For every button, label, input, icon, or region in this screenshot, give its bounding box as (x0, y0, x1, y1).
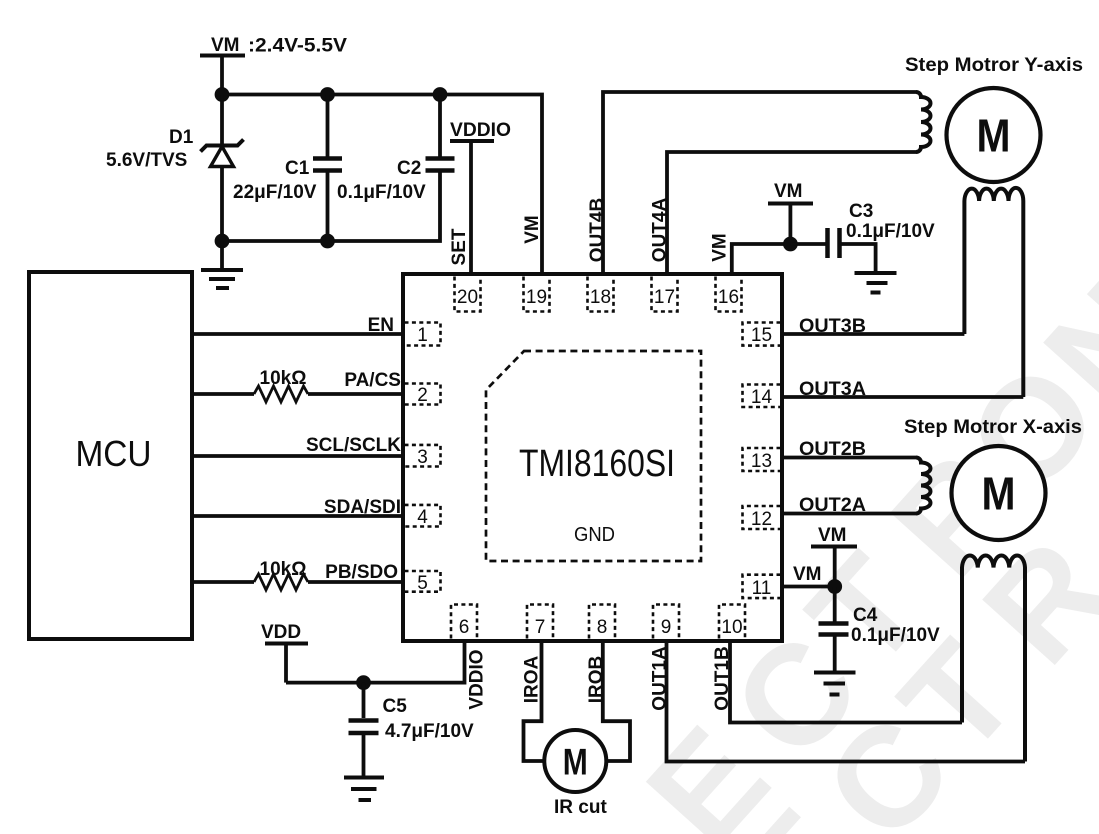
svg-text:19: 19 (526, 287, 547, 308)
svg-text:GND: GND (574, 524, 615, 546)
motor M X-axis (952, 446, 1046, 540)
pin 4 (405, 505, 441, 528)
svg-text:9: 9 (661, 617, 672, 638)
pin 16 (716, 277, 742, 312)
svg-text:16: 16 (718, 287, 739, 308)
svg-text:3: 3 (417, 447, 428, 468)
svg-text:C1: C1 (285, 158, 310, 179)
svg-text:IR cut: IR cut (554, 797, 607, 818)
node top rail at C2 (433, 87, 448, 102)
wire PB/SDO left (192, 580, 254, 584)
wire OUT2A from pin 12 (782, 512, 916, 516)
wire IROA from pin 7 (524, 641, 545, 761)
svg-text:D1: D1 (169, 127, 194, 148)
svg-text:2: 2 (417, 385, 428, 406)
resistor R2 10k (254, 574, 308, 590)
IC U1 TMI8160SI body (403, 274, 782, 641)
capacitor C2 (337, 95, 455, 204)
svg-text:13: 13 (751, 451, 772, 472)
diode D1 (106, 95, 244, 242)
wire IROB from pin 8 (603, 641, 630, 761)
pin 7 (527, 605, 553, 639)
resistor R1 10k (254, 386, 308, 402)
wire pin 16 to VM node (732, 244, 791, 274)
pin 9 (653, 605, 679, 639)
svg-text:VM: VM (211, 35, 240, 56)
svg-text:22μF/10V: 22μF/10V (233, 182, 317, 203)
svg-text:10kΩ: 10kΩ (260, 368, 307, 389)
svg-text:OUT1B: OUT1B (712, 646, 733, 710)
motor M IR cut (544, 730, 606, 792)
node bottom rail at C1 (320, 234, 335, 249)
wire SDA/SDI (192, 514, 403, 518)
ground at C4 (814, 673, 856, 695)
D1 triangle (211, 147, 234, 167)
svg-text:4: 4 (417, 507, 428, 528)
svg-text:VM: VM (793, 564, 822, 585)
svg-text:M: M (563, 742, 588, 783)
svg-text:IROA: IROA (522, 655, 543, 703)
wire OUT1B from pin 10 (730, 641, 962, 723)
svg-text:10: 10 (721, 617, 742, 638)
svg-text::2.4V-5.5V: :2.4V-5.5V (248, 36, 347, 57)
svg-text:OUT2B: OUT2B (799, 439, 866, 460)
wire EN (192, 332, 403, 336)
pin 11 (743, 575, 781, 599)
pin 5 (405, 571, 441, 594)
pin 15 (743, 323, 781, 347)
ground at C3 (855, 273, 897, 293)
svg-text:VM: VM (522, 215, 543, 244)
wire PA/CS right (308, 392, 403, 396)
wire OUT3A from pin 14 (782, 395, 1023, 399)
svg-text:10kΩ: 10kΩ (260, 559, 307, 580)
wire top rail (222, 95, 542, 277)
capacitor C3 (790, 201, 935, 272)
wire PA/CS left (192, 392, 254, 396)
pin 13 (743, 448, 781, 472)
node top rail at D1 (215, 87, 230, 102)
svg-text:OUT1A: OUT1A (650, 646, 671, 711)
svg-text:Step Motror Y-axis: Step Motror Y-axis (905, 55, 1083, 76)
svg-text:8: 8 (597, 617, 608, 638)
svg-text:18: 18 (590, 287, 611, 308)
svg-text:C3: C3 (849, 201, 873, 222)
pin 19 (524, 277, 550, 312)
inductor coil X phase B (962, 556, 1025, 762)
svg-text:OUT3B: OUT3B (799, 316, 866, 337)
svg-text:OUT4A: OUT4A (650, 198, 671, 263)
svg-text:M: M (982, 468, 1016, 520)
power VM at C3 (768, 181, 813, 244)
capacitor C5 (349, 683, 475, 776)
svg-text:17: 17 (654, 287, 675, 308)
wire OUT2B from pin 13 (782, 456, 916, 460)
svg-text:0.1μF/10V: 0.1μF/10V (337, 182, 426, 203)
pin 14 (743, 385, 781, 409)
pin 10 (719, 605, 745, 639)
MCU block (29, 272, 192, 639)
svg-text:0.1μF/10V: 0.1μF/10V (851, 625, 940, 646)
ground under D1 (201, 241, 243, 288)
svg-text:20: 20 (457, 287, 478, 308)
motor M Y-axis (947, 88, 1041, 182)
svg-text:OUT4B: OUT4B (587, 198, 608, 262)
svg-text:EN: EN (368, 315, 394, 336)
wire VDDIO to pin 20 (469, 141, 473, 276)
svg-text:MCU: MCU (76, 433, 152, 474)
wire OUT3B from pin 15 (782, 332, 964, 336)
svg-text:C2: C2 (397, 158, 421, 179)
svg-text:IROB: IROB (586, 656, 607, 704)
wire OUT4B from pin 18 (603, 92, 916, 274)
pin 6 (451, 605, 477, 639)
capacitor C1 (233, 95, 342, 242)
wire OUT4A from pin 17 (667, 152, 916, 274)
svg-text:OUT2A: OUT2A (799, 495, 866, 516)
svg-text:VM: VM (818, 525, 847, 546)
capacitor C4 (819, 587, 941, 671)
svg-text:SCL/SCLK: SCL/SCLK (306, 435, 401, 456)
svg-text:SET: SET (449, 228, 470, 265)
pin 20 (455, 277, 481, 312)
svg-text:TMI8160SI: TMI8160SI (519, 443, 675, 485)
wire VM stub (220, 56, 224, 95)
power rail VM (200, 35, 542, 276)
svg-text:15: 15 (751, 325, 772, 346)
inductor coil Y phase A (916, 92, 931, 152)
pin 2 (405, 384, 441, 407)
svg-text:7: 7 (535, 617, 546, 638)
pin 8 (589, 605, 615, 639)
VM supply bar (200, 54, 245, 58)
svg-text:PB/SDO: PB/SDO (325, 562, 398, 583)
svg-text:5.6V/TVS: 5.6V/TVS (106, 150, 187, 171)
svg-text:14: 14 (751, 387, 773, 408)
svg-text:Step Motror X-axis: Step Motror X-axis (904, 417, 1082, 438)
svg-text:11: 11 (752, 578, 772, 599)
pin 17 (652, 277, 678, 312)
power VDDIO (449, 120, 511, 276)
watermark (540, 253, 1099, 834)
svg-text:PA/CS: PA/CS (344, 370, 401, 391)
svg-text:4.7μF/10V: 4.7μF/10V (385, 721, 474, 742)
node VM C4 (827, 579, 842, 594)
D1 zener bar (201, 140, 244, 152)
svg-text:5: 5 (417, 573, 428, 594)
pin 18 (588, 277, 614, 312)
node VDD C5 (356, 675, 371, 690)
svg-text:VDDIO: VDDIO (450, 120, 511, 141)
wire SCL/SCLK (192, 454, 403, 458)
svg-text:VDD: VDD (261, 622, 301, 643)
wire VDD to pin 6 (286, 641, 465, 683)
svg-text:C4: C4 (853, 605, 878, 626)
wire pin 11 to VM node (782, 585, 835, 589)
ground at C5 (344, 778, 384, 801)
pin 1 (405, 323, 441, 347)
svg-text:VM: VM (774, 181, 803, 202)
pin 3 (405, 445, 441, 468)
wire D1 top (220, 95, 224, 147)
power VM at C4 (811, 525, 857, 587)
svg-text:6: 6 (459, 617, 470, 638)
wire D1 bottom (220, 165, 224, 241)
inductor coil Y phase B (964, 188, 1023, 397)
node top rail at C1 (320, 87, 335, 102)
svg-text:12: 12 (751, 509, 772, 530)
node VM C3 (783, 237, 798, 252)
svg-text:1: 1 (417, 325, 428, 346)
wire bottom rail (222, 171, 440, 241)
svg-text:VDDIO: VDDIO (467, 649, 488, 709)
svg-text:0.1μF/10V: 0.1μF/10V (846, 221, 935, 242)
pin 12 (743, 506, 781, 530)
svg-text:C5: C5 (383, 696, 408, 717)
wire OUT1A from pin 9 (667, 641, 1026, 762)
svg-text:SDA/SDI: SDA/SDI (324, 497, 401, 518)
svg-text:VM: VM (710, 233, 731, 262)
IC exposed pad (dashed) (486, 351, 701, 561)
svg-text:M: M (977, 110, 1011, 162)
power VDD (261, 622, 308, 683)
wire PB/SDO right (308, 580, 403, 584)
inductor coil X phase A (916, 458, 931, 514)
node bottom rail at D1 (215, 234, 230, 249)
svg-text:OUT3A: OUT3A (799, 379, 866, 400)
